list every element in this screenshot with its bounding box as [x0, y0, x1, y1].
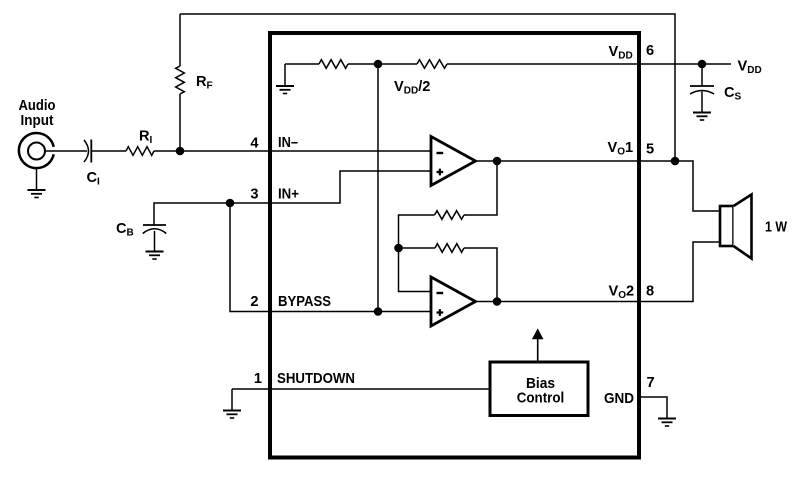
resistor RF — [176, 66, 185, 94]
node op-amp1 output junction — [493, 157, 502, 166]
label Audio Input — [19, 98, 56, 129]
svg-text:3: 3 — [250, 187, 258, 203]
wire top feedback from RF top to VO1 column — [180, 14, 675, 161]
svg-text:Control: Control — [517, 391, 565, 407]
wire divider mid — [348, 63, 417, 65]
label Bias Control — [517, 376, 565, 407]
wire divider left — [285, 63, 319, 65]
svg-text:BYPASS: BYPASS — [278, 294, 331, 310]
wire VDD rail out to external VDD — [447, 63, 731, 65]
wire R2 right down to op-amp2 output — [464, 248, 497, 302]
svg-text:IN+: IN+ — [278, 187, 299, 203]
node VDD/2 divider junction — [374, 60, 383, 69]
node feedback mid junction — [394, 244, 403, 253]
capacitor CS — [690, 85, 714, 87]
svg-text:6: 6 — [646, 43, 654, 59]
node bypass junction — [374, 307, 383, 316]
node IN+/CB junction — [226, 199, 235, 208]
svg-text:7: 7 — [647, 375, 655, 391]
speaker LS1 — [720, 195, 752, 259]
ground audio input — [28, 190, 46, 198]
ground CS — [693, 113, 711, 121]
wire op-amp2 output VO2 to speaker bottom terminal — [476, 242, 721, 302]
ground internal divider — [276, 86, 294, 94]
Bias Control box — [490, 362, 588, 416]
wire CI to RI — [91, 150, 126, 152]
node VO1 feedback junction — [671, 157, 680, 166]
ground GND pin — [658, 419, 676, 427]
svg-text:Input: Input — [21, 113, 54, 129]
resistor feedback R1 — [435, 211, 465, 220]
wire CB bottom to ground — [154, 231, 156, 251]
wire SHUTDOWN net — [232, 388, 490, 390]
wire mid node to op-amp2 inverting input — [399, 248, 432, 292]
op-amp U1B — [431, 277, 476, 326]
wire GND pin to ground — [640, 397, 667, 418]
wire feedback from op-amp1 output down — [464, 161, 497, 215]
svg-text:SHUTDOWN: SHUTDOWN — [277, 371, 355, 387]
wire BYPASS net from IN+ node down and into op-amp2 + input — [230, 203, 431, 312]
wire CS bottom to ground — [701, 92, 703, 113]
wire audio input to CI — [45, 150, 87, 152]
wire mid node to R2 — [399, 247, 436, 249]
resistor RI — [126, 147, 154, 156]
wire VO1 to speaker top terminal — [675, 161, 720, 211]
svg-text:5: 5 — [646, 142, 654, 158]
wire op-amp1 output to VO1 node — [476, 160, 676, 162]
resistor feedback R2 — [435, 244, 464, 253]
svg-text:8: 8 — [646, 284, 654, 300]
node IN- junction — [176, 147, 185, 156]
svg-text:1: 1 — [254, 371, 262, 387]
bias arrow — [532, 328, 544, 361]
svg-text:Audio: Audio — [19, 98, 56, 114]
audio input connector J1 — [19, 133, 54, 190]
svg-text:IN–: IN– — [278, 135, 298, 151]
node op-amp2 output junction — [493, 297, 502, 306]
wire IN- net into op-amp inverting input — [154, 150, 430, 152]
resistor internal divider R2 — [417, 60, 447, 69]
wire feedback R1 left to mid node — [399, 215, 435, 248]
wire shutdown ground stub — [231, 389, 233, 410]
wire RF bottom to IN- node — [179, 94, 181, 151]
node VDD/CS junction — [698, 60, 707, 69]
op-amp U1A — [431, 137, 476, 186]
ground CB — [146, 252, 164, 260]
svg-text:1 W: 1 W — [765, 220, 787, 236]
wire VDD/2 vertical to bypass — [377, 64, 379, 312]
wire internal divider ground stub — [284, 64, 286, 86]
resistor internal divider R1 — [319, 60, 348, 69]
wire RF top stub — [179, 14, 181, 66]
svg-text:GND: GND — [604, 391, 634, 407]
svg-text:4: 4 — [250, 136, 259, 152]
capacitor CI — [84, 140, 89, 162]
svg-text:2: 2 — [250, 294, 258, 310]
wire CB up and IN+ net to op-amp non-inverting input — [154, 171, 430, 225]
ground shutdown — [223, 411, 241, 419]
wire CS stub from VDD node — [701, 64, 703, 86]
capacitor CB — [143, 224, 166, 226]
IC box — [270, 33, 639, 458]
